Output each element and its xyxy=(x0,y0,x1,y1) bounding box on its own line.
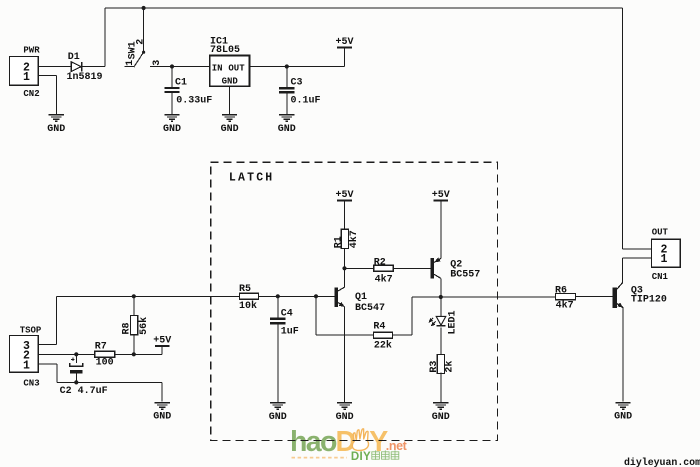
svg-text:0.33uF: 0.33uF xyxy=(176,95,212,106)
svg-text:D1: D1 xyxy=(68,52,80,63)
resistor R8 56k xyxy=(122,296,150,354)
wire Q1 base rail xyxy=(259,295,335,297)
svg-text:C2: C2 xyxy=(60,386,72,397)
node Q2 collector/LED1/output xyxy=(439,295,443,299)
power +5V main xyxy=(335,37,353,48)
node R8 bottom xyxy=(132,352,136,356)
wire R6 to Q3 base xyxy=(576,296,613,298)
wire Q1 emitter to ground xyxy=(344,307,346,402)
transistor Q2 BC557 xyxy=(430,257,480,280)
svg-text:CN3: CN3 xyxy=(23,378,39,388)
wire IC1 OUT to +5V xyxy=(250,66,345,68)
svg-text:R2: R2 xyxy=(374,257,386,268)
svg-text:hao: hao xyxy=(290,426,337,458)
svg-text:BC547: BC547 xyxy=(355,303,385,314)
svg-text:+5V: +5V xyxy=(432,190,450,201)
svg-text:C3: C3 xyxy=(291,78,303,89)
capacitor C3 0.1uF xyxy=(279,67,320,114)
wire TSOP pin1 to ground rail xyxy=(38,364,162,402)
svg-text:3: 3 xyxy=(152,60,163,66)
wire R5 to Q1 base xyxy=(259,295,317,297)
wire TSOP pin2 rail xyxy=(38,353,95,355)
transistor Q1 BC547 xyxy=(334,287,385,314)
svg-text:CN2: CN2 xyxy=(23,89,39,99)
resistor R2 4k7 xyxy=(374,257,394,285)
wire riser to top rail xyxy=(104,8,106,67)
svg-text:Q1: Q1 xyxy=(355,292,367,303)
wire D1 cathode to riser xyxy=(82,66,105,68)
svg-text:+5V: +5V xyxy=(335,190,353,201)
svg-text:1n5819: 1n5819 xyxy=(67,72,103,83)
switch SW1 xyxy=(124,8,163,67)
svg-text:PWR: PWR xyxy=(23,46,40,56)
watermark haoDIY logo xyxy=(290,426,408,458)
transistor Q3 TIP120 xyxy=(613,283,667,308)
svg-text:OUT: OUT xyxy=(652,227,669,237)
site credit text xyxy=(624,457,700,467)
ground under CN2 xyxy=(47,114,65,135)
ground under Q3 xyxy=(614,402,632,423)
svg-text:GND: GND xyxy=(153,412,171,423)
wire CN1 pin1 to Q3 collector xyxy=(623,258,652,283)
connector CN3 TSOP xyxy=(9,325,42,388)
svg-text:100: 100 xyxy=(96,358,114,369)
node R8 top xyxy=(132,294,136,298)
svg-text:GND: GND xyxy=(269,412,287,423)
svg-text:R8: R8 xyxy=(122,322,133,334)
wire LED1 to R3 xyxy=(440,328,442,355)
svg-text:GND: GND xyxy=(47,124,65,135)
LATCH block boundary xyxy=(211,162,498,440)
node C2 top xyxy=(74,352,78,356)
wire IC1 GND pin xyxy=(229,86,231,114)
svg-text:R4: R4 xyxy=(373,322,385,333)
svg-text:1uF: 1uF xyxy=(281,327,299,338)
capacitor C1 0.33uF xyxy=(164,67,212,114)
capacitor C4 1uF xyxy=(270,296,299,402)
node C3 junction xyxy=(285,64,289,68)
svg-text:GND: GND xyxy=(221,124,239,135)
svg-text:OUT: OUT xyxy=(228,63,245,73)
ground under Q1 xyxy=(336,402,354,423)
svg-text:R1: R1 xyxy=(333,236,344,248)
svg-text:4k7: 4k7 xyxy=(375,273,393,285)
wire +5V riser xyxy=(344,47,346,66)
svg-text:GND: GND xyxy=(614,412,632,423)
wire +5V riser left xyxy=(161,346,163,355)
wire CN2 pin1 xyxy=(38,76,56,114)
node C1 junction xyxy=(170,64,174,68)
wire top rail drop to CN1 xyxy=(622,8,624,249)
ground under C3 xyxy=(278,114,296,135)
wire node to R2 xyxy=(345,267,374,269)
ground under C4 xyxy=(269,402,287,423)
node C4 junction xyxy=(276,294,280,298)
node C2 bottom xyxy=(74,380,78,384)
power +5V above R1 xyxy=(335,190,353,201)
node top rail / SW1 xyxy=(142,6,146,10)
svg-text:TIP120: TIP120 xyxy=(631,295,667,306)
svg-text:DIY: DIY xyxy=(351,451,371,463)
resistor R7 100 xyxy=(95,342,115,369)
LED LED1 xyxy=(428,310,458,334)
wire Q3 emitter to ground xyxy=(622,308,624,402)
svg-text:CN1: CN1 xyxy=(652,272,669,282)
wire +5V to R1 xyxy=(344,200,346,229)
wire signal rail to R5 xyxy=(57,295,240,297)
wire CN1 pin2 xyxy=(623,248,652,250)
wire TSOP pin3 riser xyxy=(38,296,57,344)
svg-text:R3: R3 xyxy=(429,361,440,373)
svg-text:1: 1 xyxy=(23,71,30,84)
wire node to LED1 xyxy=(440,297,442,317)
svg-text:22k: 22k xyxy=(374,340,392,352)
resistor R6 4k7 xyxy=(555,286,576,312)
svg-text:GND: GND xyxy=(336,412,354,423)
ground under IC1 xyxy=(221,114,239,135)
wire R2 to Q2 base xyxy=(393,267,430,269)
svg-text:BC557: BC557 xyxy=(450,270,480,281)
svg-text:2k: 2k xyxy=(443,361,455,373)
svg-text:GND: GND xyxy=(222,76,239,86)
wire Q1 collector riser xyxy=(344,268,346,287)
svg-text:GND: GND xyxy=(163,124,181,135)
resistor R4 22k xyxy=(373,322,392,352)
svg-text:LATCH: LATCH xyxy=(229,171,275,184)
svg-text:1: 1 xyxy=(23,360,30,373)
power +5V pullup xyxy=(153,336,171,347)
wire SW1 pin3 to IC1 IN xyxy=(150,66,210,68)
svg-text:C1: C1 xyxy=(175,78,187,89)
watermark DIY tagline xyxy=(292,450,399,463)
ground under C1 xyxy=(163,114,181,135)
svg-text:1: 1 xyxy=(125,60,136,66)
svg-text:LED1: LED1 xyxy=(447,310,458,334)
svg-text:R5: R5 xyxy=(239,284,251,295)
svg-text:0.1uF: 0.1uF xyxy=(291,95,321,106)
connector CN1 OUT xyxy=(651,227,680,281)
svg-text:2: 2 xyxy=(136,39,147,45)
svg-text:diyleyuan.com: diyleyuan.com xyxy=(624,457,700,467)
wire R4 feedback loop left xyxy=(316,296,373,335)
resistor R1 4k7 xyxy=(333,229,359,248)
diode D1 1n5819 xyxy=(67,52,103,83)
wire R7 to +5V xyxy=(115,353,162,355)
resistor R3 2k xyxy=(429,354,455,373)
svg-text:56k: 56k xyxy=(138,317,150,335)
wire R3 to ground xyxy=(440,373,442,402)
resistor R5 10k xyxy=(239,284,259,312)
regulator IC1 78L05 xyxy=(210,36,250,86)
svg-text:4k7: 4k7 xyxy=(556,300,574,312)
svg-text:+5V: +5V xyxy=(153,336,171,347)
wire R1 to node xyxy=(344,249,346,269)
wire +5V to Q2 emitter xyxy=(440,200,442,258)
capacitor C2 4.7uF electrolytic xyxy=(60,354,108,397)
svg-text:IN: IN xyxy=(212,63,223,73)
svg-text:4k7: 4k7 xyxy=(348,230,360,248)
svg-text:1: 1 xyxy=(660,253,667,266)
svg-text:TSOP: TSOP xyxy=(20,325,42,335)
svg-text:R7: R7 xyxy=(95,342,107,353)
node R1/R2/Q1 collector xyxy=(342,266,346,270)
svg-text:78L05: 78L05 xyxy=(210,45,240,56)
connector CN2 PWR xyxy=(9,46,40,99)
svg-text:GND: GND xyxy=(278,124,296,135)
ground under R3 xyxy=(432,402,450,423)
svg-text:R6: R6 xyxy=(555,286,567,297)
svg-text:+5V: +5V xyxy=(335,37,353,48)
svg-text:10k: 10k xyxy=(239,300,257,312)
ground under pullup xyxy=(153,402,171,423)
wire output rail xyxy=(412,296,556,298)
svg-text:4.7uF: 4.7uF xyxy=(78,386,108,397)
wire top rail xyxy=(105,7,623,9)
wire R4 to output riser xyxy=(393,297,413,335)
svg-text:C4: C4 xyxy=(281,308,293,319)
wire Q2 collector xyxy=(440,278,442,297)
power +5V above Q2 xyxy=(432,190,450,201)
node Q1 base / R4 riser xyxy=(314,294,318,298)
svg-text:GND: GND xyxy=(432,412,450,423)
wire CN2 pin2 to D1 xyxy=(38,66,71,68)
